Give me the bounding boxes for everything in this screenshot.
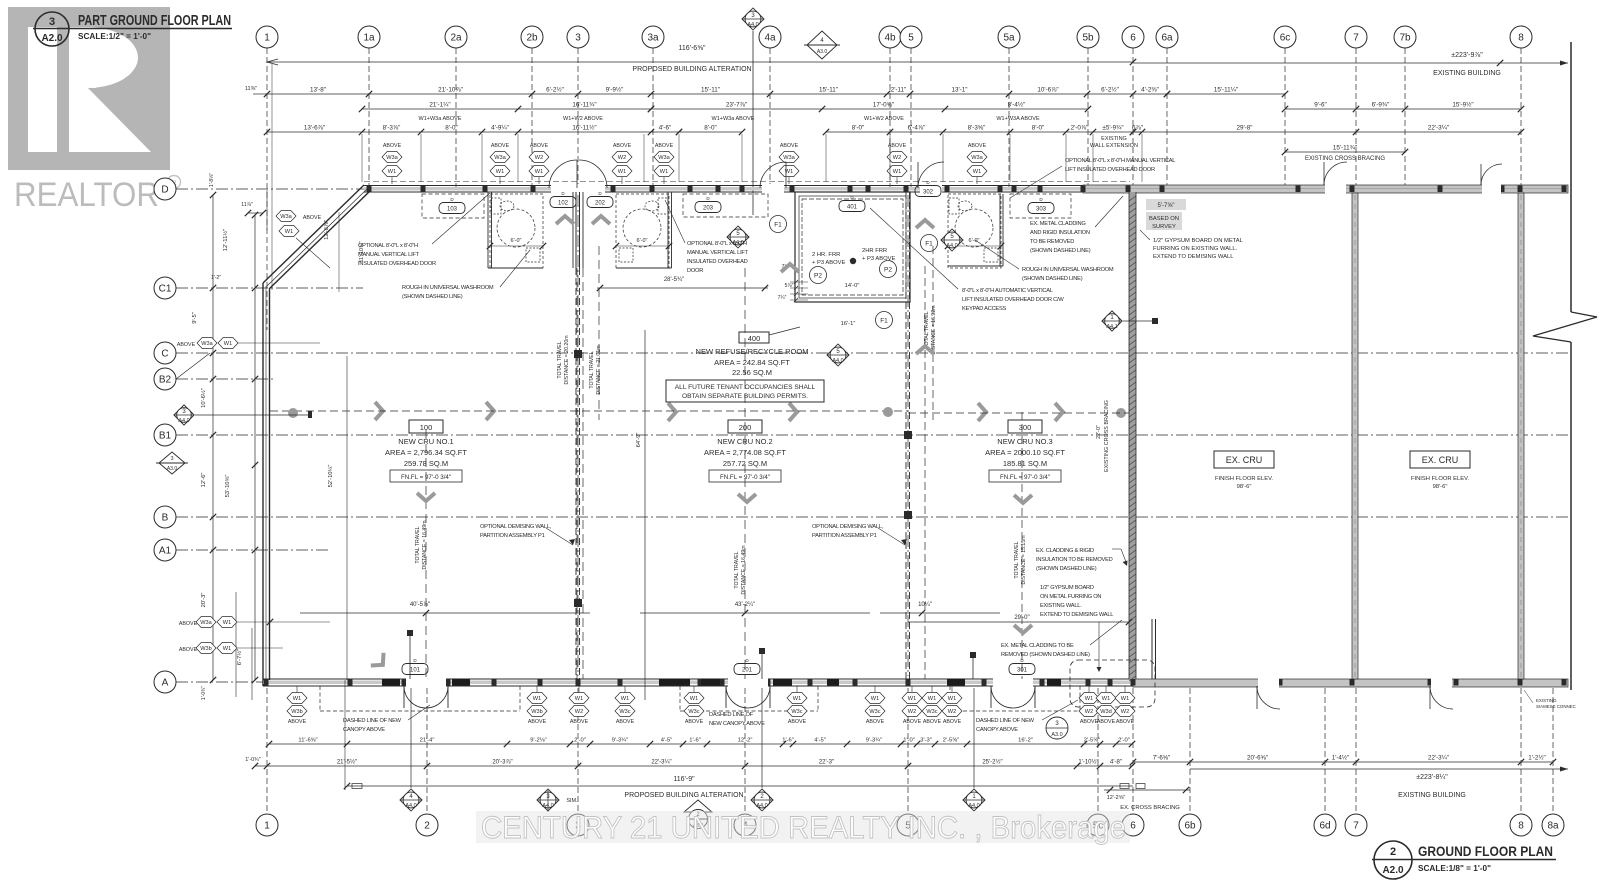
existing building doors (top wall) [1324,162,1347,185]
svg-text:W3a: W3a [494,155,506,161]
svg-text:1'-6": 1'-6" [782,738,794,744]
svg-text:W1: W1 [223,620,231,626]
dim 28'-5 line [597,287,768,289]
svg-text:7b: 7b [1399,33,1411,44]
hexagon tags on chamfer [276,211,296,222]
svg-text:23'-7⅞": 23'-7⅞" [726,102,747,109]
grey direction chevrons [556,216,574,224]
svg-text:FINISH FLOOR ELEV.: FINISH FLOOR ELEV. [1215,476,1273,482]
svg-text:1: 1 [264,821,270,832]
svg-text:7'-6⅝": 7'-6⅝" [1153,755,1170,762]
svg-text:LIFT INSULATED OVERHEAD DOOR C: LIFT INSULATED OVERHEAD DOOR C/W [962,297,1064,303]
svg-text:ABOVE: ABOVE [303,215,322,221]
svg-text:C1: C1 [159,284,172,295]
bottom reference diamonds [400,789,422,811]
svg-text:12'-2": 12'-2" [738,738,753,744]
svg-text:(SHOWN DASHED LINE): (SHOWN DASHED LINE) [402,294,463,300]
svg-text:301: 301 [1017,667,1028,673]
svg-text:15'-11¼": 15'-11¼" [1214,87,1238,94]
svg-text:ALL FUTURE TENANT OCCUPANCIES: ALL FUTURE TENANT OCCUPANCIES SHALL [675,384,816,391]
svg-text:8'-3⅝": 8'-3⅝" [968,125,986,132]
svg-text:185.81 SQ.M: 185.81 SQ.M [1003,459,1047,468]
svg-text:22'-3¼": 22'-3¼" [651,760,671,766]
svg-text:3a: 3a [647,33,659,44]
svg-text:W1: W1 [690,696,698,702]
svg-text:20'-3": 20'-3" [201,593,207,608]
svg-text:12'-8⅞": 12'-8⅞" [324,220,330,240]
svg-text:1'-0¾": 1'-0¾" [201,686,207,700]
svg-text:1/2" GYPSUM BOARD: 1/2" GYPSUM BOARD [1040,585,1094,591]
svg-text:TOTAL TRAVEL: TOTAL TRAVEL [1014,541,1020,578]
bottom grid bubbles [256,814,278,836]
svg-text:3'-3": 3'-3" [920,738,932,744]
diamond 1/A4.1 [1102,311,1122,331]
svg-text:64'-9": 64'-9" [636,433,642,448]
svg-text:W1: W1 [893,169,901,175]
svg-text:4a: 4a [764,33,776,44]
bottom dimension row (existing) [1133,761,1553,763]
svg-text:B: B [162,513,169,524]
svg-text:W3a: W3a [386,155,398,161]
svg-text:±223'-8¼": ±223'-8¼" [1416,774,1448,781]
svg-text:P2: P2 [814,272,822,279]
svg-text:TOTAL TRAVEL: TOTAL TRAVEL [415,526,421,563]
svg-text:98'-6": 98'-6" [1237,484,1252,490]
svg-text:+ P3 ABOVE: + P3 ABOVE [812,260,845,266]
CRU 100 text block [409,420,443,433]
svg-text:8'-0": 8'-0" [852,125,865,132]
svg-text:8'-4½": 8'-4½" [1008,101,1026,109]
svg-text:AREA = 2000.10 SQ.FT: AREA = 2000.10 SQ.FT [985,448,1065,457]
svg-text:ABOVE: ABOVE [685,719,704,725]
dimension extension verticals to wall [361,134,363,182]
svg-text:W3a: W3a [201,341,213,347]
svg-text:W1+W3A ABOVE: W1+W3A ABOVE [996,116,1040,122]
svg-text:CENTURY 21 UNITED REALTY INC.: CENTURY 21 UNITED REALTY INC. , Brokerag… [481,809,1126,845]
dashed removal outline at 5c corner [1070,660,1155,707]
svg-text:ABOVE: ABOVE [780,143,799,149]
64'-9 vertical dim [644,330,646,700]
svg-text:13'-1": 13'-1" [951,87,967,94]
entry door 301 [991,686,1013,708]
chamfer wall (top-left diagonal) [263,185,364,283]
bottom wall (storefront + existing) [263,681,1133,685]
svg-text:5'-7⅝": 5'-7⅝" [1158,203,1175,209]
wall stub near 5c [1151,619,1153,679]
svg-text:BASED ON: BASED ON [1149,216,1179,222]
svg-text:W1: W1 [293,696,301,702]
svg-text:W1: W1 [928,696,936,702]
svg-text:6⅞": 6⅞" [1132,125,1143,132]
svg-text:20'-6⅝": 20'-6⅝" [1247,755,1268,762]
svg-text:102: 102 [558,200,569,206]
svg-text:6'-2½": 6'-2½" [546,86,564,94]
svg-text:FN.FL = 97'-0 3/4": FN.FL = 97'-0 3/4" [720,474,770,481]
washroom partition walls grid 3 [572,192,574,268]
svg-text:W3a: W3a [971,155,983,161]
svg-text:W1: W1 [621,696,629,702]
svg-text:DISTANCE = 21.01m: DISTANCE = 21.01m [596,345,602,394]
svg-text:PROPOSED BUILDING ALTERATION: PROPOSED BUILDING ALTERATION [624,792,743,799]
svg-text:W1+W3a ABOVE: W1+W3a ABOVE [712,116,755,122]
svg-text:W2: W2 [1121,709,1129,715]
svg-text:ABOVE: ABOVE [616,719,635,725]
svg-text:401: 401 [847,204,858,210]
door tags top [439,203,465,214]
svg-text:EX. CRU: EX. CRU [1226,455,1263,465]
existing wall grid 6 (hatched) [1129,192,1136,679]
svg-text:A3.0: A3.0 [1051,732,1062,738]
top reference diamonds [742,8,764,30]
svg-text:21'-4": 21'-4" [420,738,435,744]
svg-text:W3c: W3c [869,709,880,715]
svg-text:4'-8": 4'-8" [1110,760,1122,766]
double entry doors at grid 3 [549,160,577,188]
svg-text:C: C [161,349,168,360]
bottom wall door openings [406,678,446,688]
svg-text:14'-0": 14'-0" [845,283,860,289]
svg-text:MANUAL VERTICAL LIFT: MANUAL VERTICAL LIFT [358,252,420,258]
svg-text:98'-6": 98'-6" [1433,484,1448,490]
svg-text:W1: W1 [1121,696,1129,702]
svg-text:W1: W1 [618,169,626,175]
svg-text:15'-9½": 15'-9½" [1452,101,1473,109]
svg-text:A1: A1 [159,546,172,557]
svg-text:8'-0": 8'-0" [445,125,458,132]
svg-text:12'-2⅝": 12'-2⅝" [1107,795,1126,801]
EX. CRU label 1 [1214,451,1274,468]
svg-text:INSULATED OVERHEAD DOOR: INSULATED OVERHEAD DOOR [358,261,436,267]
svg-text:11'-10¾": 11'-10¾" [359,241,365,262]
svg-text:F1: F1 [925,240,933,247]
svg-text:ABOVE: ABOVE [528,719,547,725]
left diamond 3/A3.0 [159,452,185,474]
svg-text:12'-11½": 12'-11½" [222,229,229,251]
left grid letter lines [176,188,1568,190]
svg-text:SCALE:1/2" = 1'-0": SCALE:1/2" = 1'-0" [78,31,151,41]
refuse/recycle room 400 [795,192,910,302]
entry door 101 [404,686,426,708]
svg-text:FINISH FLOOR ELEV.: FINISH FLOOR ELEV. [1411,476,1469,482]
svg-text:3: 3 [170,456,173,462]
svg-text:8: 8 [1518,821,1524,832]
svg-text:20'-3⅞": 20'-3⅞" [492,760,512,766]
misc extension lines [266,190,268,230]
svg-text:FURRING ON EXISTING WALL.: FURRING ON EXISTING WALL. [1153,246,1238,252]
svg-text:W1: W1 [535,169,543,175]
svg-text:(SHOWN DASHED LINE): (SHOWN DASHED LINE) [1030,248,1091,254]
svg-text:FN.FL = 97'-0 3/4": FN.FL = 97'-0 3/4" [401,474,451,481]
svg-text:7: 7 [1353,821,1359,832]
svg-text:10¼": 10¼" [918,602,932,608]
svg-text:4'-9¼": 4'-9¼" [491,125,509,132]
svg-text:11⅞": 11⅞" [241,202,253,208]
svg-text:NEW CRU NO.3: NEW CRU NO.3 [997,437,1052,446]
svg-text:ABOVE: ABOVE [491,143,510,149]
svg-text:116'-9": 116'-9" [673,776,695,783]
svg-text:103: 103 [447,206,458,212]
svg-text:ABOVE: ABOVE [179,647,198,653]
svg-text:(SHOWN DASHED LINE): (SHOWN DASHED LINE) [1022,276,1083,282]
svg-text:ABOVE: ABOVE [530,143,549,149]
svg-text:OPTIONAL DEMISING WALL,: OPTIONAL DEMISING WALL, [480,524,552,530]
svg-text:W3a: W3a [280,214,292,220]
svg-text:F1: F1 [880,317,888,324]
svg-text:EXISTING BUILDING: EXISTING BUILDING [1433,70,1501,77]
svg-text:1'-0¾": 1'-0¾" [245,757,261,763]
bottom grid dashed lines [266,688,268,812]
dimension row 2 (top) [267,93,1167,95]
right edge line with break symbol [1570,42,1572,312]
svg-text:9'-6": 9'-6" [1314,102,1327,109]
svg-text:2 HR. FRR: 2 HR. FRR [812,252,840,258]
top wall (storefront + existing) [364,187,1083,191]
svg-text:ABOVE: ABOVE [655,143,674,149]
left grid letter bubbles [154,178,176,200]
svg-text:2HR FRR: 2HR FRR [862,248,887,254]
washroom 202 (right of grid 3) [616,194,669,268]
dashed egress line y411 [270,410,908,412]
washroom 102 (left of grid 3) [490,194,543,268]
dimension row 4 (top) [267,131,679,133]
svg-text:W2: W2 [893,155,901,161]
svg-text:P2: P2 [884,266,892,273]
svg-text:A2.0: A2.0 [41,33,63,44]
note: based on survey (highlighted) [1146,199,1186,210]
svg-text:ABOVE: ABOVE [1080,719,1099,725]
svg-text:11'-6⅝": 11'-6⅝" [298,738,317,744]
svg-text:DASHED LINE OF NEW: DASHED LINE OF NEW [343,718,402,724]
hexagon wall tags below bottom wall [296,686,298,692]
svg-text:6'-0": 6'-0" [637,238,648,244]
svg-text:OPTIONAL 8'-0"L x 8'-0"H: OPTIONAL 8'-0"L x 8'-0"H [687,241,747,247]
svg-text:8'-3⅞": 8'-3⅞" [383,125,401,132]
svg-text:101: 101 [410,667,421,673]
svg-text:5a: 5a [1003,33,1015,44]
svg-text:1'-4½": 1'-4½" [1332,755,1349,762]
CRU 300 text block [1008,420,1042,433]
svg-text:29'-8": 29'-8" [1236,125,1252,132]
svg-text:13'-8": 13'-8" [310,87,326,94]
svg-text:13'-6⅞": 13'-6⅞" [304,125,325,132]
svg-text:W3c: W3c [791,709,802,715]
svg-text:OBTAIN SEPARATE BUILDING PERMI: OBTAIN SEPARATE BUILDING PERMITS. [682,393,808,400]
svg-text:1a: 1a [363,33,375,44]
svg-text:GROUND FLOOR PLAN: GROUND FLOOR PLAN [1418,844,1553,859]
EX. CRU label 2 [1410,451,1470,468]
svg-text:W3c: W3c [688,709,699,715]
canopy dashed outline [320,710,448,712]
svg-text:W1: W1 [533,696,541,702]
svg-text:2b: 2b [526,33,538,44]
svg-text:W2: W2 [575,709,583,715]
svg-text:EX. CLADDING & RIGID: EX. CLADDING & RIGID [1036,548,1094,554]
svg-text:NEW REFUSE/RECYCLE ROOM: NEW REFUSE/RECYCLE ROOM [696,347,809,356]
svg-text:W2: W2 [618,155,626,161]
svg-text:257.72 SQ.M: 257.72 SQ.M [723,459,767,468]
entry door 201 [726,686,748,708]
svg-text:A4.1: A4.1 [1106,324,1117,330]
title block 2/A2.0 GROUND FLOOR PLAN [1374,841,1412,879]
diamond leader verticals [410,688,412,788]
svg-text:4'-2⅜": 4'-2⅜" [1141,87,1159,94]
svg-text:INSULATION TO BE REMOVED: INSULATION TO BE REMOVED [1036,557,1113,563]
svg-text:DASHED LINE OF NEW: DASHED LINE OF NEW [976,718,1035,724]
svg-text:W2: W2 [908,709,916,715]
svg-text:4b: 4b [884,33,896,44]
svg-text:WALL EXTENSION: WALL EXTENSION [1090,143,1138,149]
svg-text:SIAMESE CONNEC: SIAMESE CONNEC [1536,704,1576,709]
svg-text:EX. METAL CLADDING: EX. METAL CLADDING [1030,221,1086,227]
svg-text:17'-0⅝": 17'-0⅝" [873,102,894,109]
svg-text:D: D [161,185,168,196]
svg-text:21'-1¼": 21'-1¼" [429,102,450,109]
door tag 101 [402,664,428,675]
svg-text:A2.0: A2.0 [1382,865,1404,876]
svg-text:ABOVE: ABOVE [968,143,987,149]
svg-text:28'-5¾": 28'-5¾" [664,277,684,283]
svg-text:A4.0: A4.0 [178,418,189,424]
svg-text:29'-0": 29'-0" [1014,615,1029,621]
svg-text:W1: W1 [908,696,916,702]
svg-text:W3a: W3a [658,155,670,161]
svg-text:ABOVE: ABOVE [613,143,632,149]
svg-text:W1: W1 [1102,696,1110,702]
svg-text:EXISTING BUILDING: EXISTING BUILDING [1398,792,1466,799]
svg-text:SCALE:1/8" = 1'-0": SCALE:1/8" = 1'-0" [1418,863,1491,873]
svg-text:±5'-9¾": ±5'-9¾" [1102,125,1123,132]
svg-text:F1: F1 [774,221,782,228]
svg-text:6'-2½": 6'-2½" [1101,86,1119,94]
entry door at washroom 302 [918,162,944,188]
svg-text:3: 3 [575,33,581,44]
svg-text:W1: W1 [871,696,879,702]
svg-text:W1: W1 [388,169,396,175]
svg-text:ROUGH IN UNIVERSAL WASHROOM: ROUGH IN UNIVERSAL WASHROOM [1022,267,1114,273]
svg-text:W1: W1 [575,696,583,702]
svg-text:NEW CANOPY ABOVE: NEW CANOPY ABOVE [709,721,765,727]
svg-text:2'-0": 2'-0" [1118,738,1130,744]
svg-text:6a: 6a [1161,33,1173,44]
svg-text:1'-2": 1'-2" [211,275,221,281]
svg-text:EXTEND TO DEMISING WALL: EXTEND TO DEMISING WALL [1153,254,1234,260]
svg-text:ABOVE: ABOVE [179,621,198,627]
svg-text:2'-0": 2'-0" [574,738,586,744]
bottom dimension row 2 [255,765,1132,767]
svg-text:6'-0": 6'-0" [511,238,522,244]
svg-text:ABOVE: ABOVE [923,719,942,725]
svg-text:OPTIONAL DEMISING WALL,: OPTIONAL DEMISING WALL, [812,524,884,530]
svg-text:4'-6": 4'-6" [659,125,672,132]
svg-text:CANOPY ABOVE: CANOPY ABOVE [343,727,385,733]
svg-text:15'-11¾": 15'-11¾" [1333,145,1357,152]
bottom dimension row 1 [269,743,1132,745]
top grid bubbles [256,26,278,48]
bottom wall piers [659,679,690,686]
svg-text:15'-11": 15'-11" [819,87,838,94]
existing wall grid 8 [1518,193,1524,679]
refuse room text block [739,332,769,343]
svg-text:DISTANCE = 16.92m: DISTANCE = 16.92m [931,305,937,354]
svg-text:40'-5⅞": 40'-5⅞" [410,602,430,608]
svg-text:2'-5⅝": 2'-5⅝" [1084,738,1100,744]
svg-text:9'-3¼": 9'-3¼" [866,738,882,744]
svg-text:W1: W1 [948,696,956,702]
existing wall grid 7 [1352,193,1358,679]
svg-text:7: 7 [1353,33,1359,44]
svg-text:25'-2½": 25'-2½" [982,759,1002,766]
svg-text:(SHOWN DASHED LINE): (SHOWN DASHED LINE) [1036,566,1097,572]
svg-text:2'-5⅝": 2'-5⅝" [943,738,959,744]
svg-text:W2: W2 [1085,709,1093,715]
svg-text:4'-5": 4'-5" [814,738,826,744]
svg-text:1'-0": 1'-0" [903,738,915,744]
svg-text:PARTITION ASSEMBLY P1: PARTITION ASSEMBLY P1 [480,533,545,539]
left dimension chains [212,195,214,680]
svg-text:W1: W1 [973,169,981,175]
bottom overall dim (proposed) [347,785,1133,787]
svg-text:A4.0: A4.0 [832,358,843,364]
bottom wall mullions [264,679,269,686]
svg-text:6c: 6c [1280,33,1291,44]
svg-text:A4.0: A4.0 [946,243,957,249]
svg-text:303: 303 [1036,206,1047,212]
svg-text:2'-0⅞": 2'-0⅞" [1071,125,1089,132]
existing building interior doors (bottom) [1257,686,1280,709]
building permits note box [666,380,824,402]
svg-text:22'-3¼": 22'-3¼" [1428,125,1449,132]
svg-text:1/2" GYPSUM BOARD ON METAL: 1/2" GYPSUM BOARD ON METAL [1153,238,1244,244]
svg-text:9'-5": 9'-5" [192,312,198,324]
svg-text:OPTIONAL 8'-0"L x 8'-0"H MANUA: OPTIONAL 8'-0"L x 8'-0"H MANUAL VERTICAL [1065,158,1175,164]
svg-text:NEW CRU NO.1: NEW CRU NO.1 [398,437,453,446]
svg-text:1'-10½": 1'-10½" [1078,759,1098,766]
svg-text:W3c: W3c [619,709,630,715]
svg-text:AND RIGID INSULATION: AND RIGID INSULATION [1030,230,1090,236]
svg-text:22'-3¼": 22'-3¼" [1428,755,1449,762]
svg-text:ABOVE: ABOVE [943,719,962,725]
bottom overall dim (existing) [1190,768,1568,770]
top grid dashed lines [266,48,268,330]
svg-text:SURVEY: SURVEY [1152,224,1176,230]
svg-text:11⅜": 11⅜" [245,86,257,92]
svg-text:6: 6 [1130,821,1136,832]
svg-text:7¼": 7¼" [778,295,787,301]
svg-text:6'-9¾": 6'-9¾" [1372,102,1390,109]
left diamond 3/A4.0 [174,405,194,425]
svg-text:22'-3": 22'-3" [819,760,834,766]
svg-text:ABOVE: ABOVE [1116,719,1135,725]
svg-text:1: 1 [264,33,270,44]
svg-text:259.78 SQ.M: 259.78 SQ.M [404,459,448,468]
entry door near grid 5 [760,162,786,188]
svg-text:ABOVE: ABOVE [888,143,907,149]
dimension row 3 (top) [362,108,651,110]
svg-text:B1: B1 [159,431,172,442]
svg-text:8: 8 [1518,33,1524,44]
svg-text:PARTITION ASSEMBLY P1: PARTITION ASSEMBLY P1 [812,533,877,539]
svg-text:A3.0: A3.0 [817,49,828,55]
svg-text:202: 202 [595,200,606,206]
svg-text:EXISTING CROSS BRACING: EXISTING CROSS BRACING [1305,156,1385,162]
svg-text:16'-11½": 16'-11½" [572,124,596,132]
travel distance dashed paths [576,268,578,679]
svg-text:LIFT INSULATED OVERHEAD DOOR: LIFT INSULATED OVERHEAD DOOR [1065,167,1155,173]
svg-text:AREA = 242.84 SQ.FT: AREA = 242.84 SQ.FT [714,358,790,367]
svg-text:8'-0": 8'-0" [704,125,717,132]
svg-text:EXISTING: EXISTING [1536,698,1557,703]
svg-text:DASHED LINE OF: DASHED LINE OF [709,712,754,718]
